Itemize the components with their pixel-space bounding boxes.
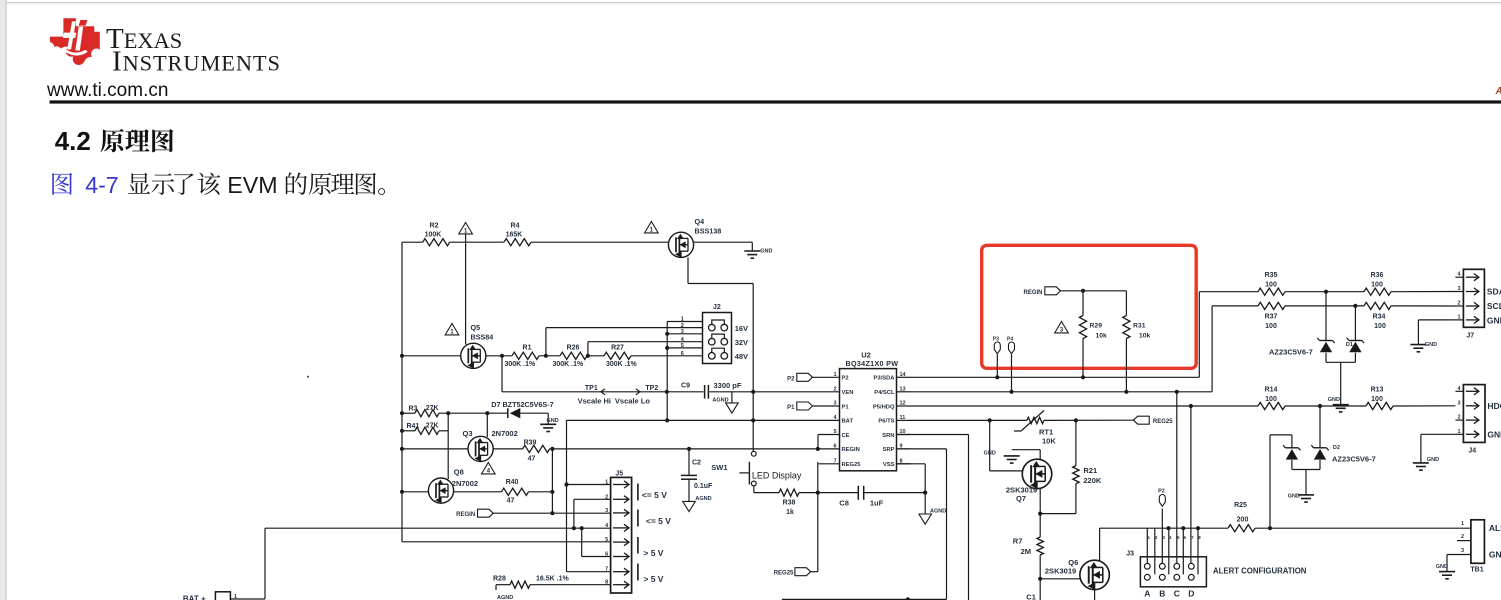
- svg-text:ALERT CONFIGURATION: ALERT CONFIGURATION: [1213, 567, 1307, 576]
- svg-text:C8: C8: [839, 499, 849, 508]
- svg-text:GND: GND: [1427, 457, 1439, 463]
- svg-text:D1: D1: [1346, 342, 1353, 348]
- svg-text:300K .1%: 300K .1%: [606, 361, 638, 368]
- svg-text:5: 5: [605, 537, 608, 543]
- svg-text:GND: GND: [1328, 397, 1340, 403]
- svg-text:P3/SDA: P3/SDA: [874, 376, 896, 382]
- svg-text:R7: R7: [1013, 536, 1023, 545]
- svg-text:100K: 100K: [425, 232, 442, 239]
- svg-text:D7 BZT52C5V6S-7: D7 BZT52C5V6S-7: [491, 400, 553, 409]
- svg-text:4-7: 4-7: [85, 172, 119, 198]
- svg-text:0.1uF: 0.1uF: [694, 483, 713, 490]
- svg-text:100: 100: [1265, 282, 1277, 289]
- svg-text:7: 7: [605, 567, 608, 573]
- svg-text:1: 1: [450, 329, 454, 336]
- svg-text:GND: GND: [1487, 429, 1501, 439]
- svg-text:GND: GND: [1288, 494, 1300, 500]
- svg-text:47: 47: [507, 498, 515, 505]
- svg-text:BSS84: BSS84: [471, 333, 494, 342]
- svg-text:R29: R29: [1090, 323, 1103, 330]
- svg-text:R39: R39: [524, 440, 537, 447]
- svg-text:GND: GND: [1436, 564, 1448, 570]
- svg-text:GND: GND: [1489, 550, 1501, 560]
- svg-text:100: 100: [1265, 323, 1277, 330]
- svg-text:R1: R1: [523, 345, 532, 352]
- svg-text:1: 1: [1461, 521, 1464, 527]
- svg-text:10k: 10k: [1139, 333, 1151, 340]
- svg-text:B: B: [1159, 589, 1165, 599]
- svg-text:J4: J4: [1468, 448, 1476, 455]
- svg-text:48V: 48V: [735, 352, 748, 361]
- svg-text:P4/SCL: P4/SCL: [874, 390, 895, 396]
- svg-text:R28: R28: [493, 576, 506, 583]
- svg-text:Vscale Lo: Vscale Lo: [615, 396, 650, 405]
- svg-text:SCL: SCL: [1487, 301, 1501, 311]
- svg-text:1: 1: [605, 480, 608, 486]
- svg-text:GND: GND: [547, 418, 559, 424]
- svg-text:Q4: Q4: [695, 217, 705, 226]
- svg-text:> 5 V: > 5 V: [643, 548, 663, 558]
- svg-text:R26: R26: [567, 345, 580, 352]
- svg-text:Q7: Q7: [1016, 494, 1026, 503]
- svg-text:10K: 10K: [1042, 436, 1056, 445]
- svg-text:C9: C9: [681, 383, 690, 390]
- svg-text:TP2: TP2: [645, 385, 658, 392]
- svg-text:J5: J5: [615, 471, 623, 478]
- svg-text:R31: R31: [1133, 323, 1146, 330]
- svg-text:BSS138: BSS138: [695, 227, 722, 236]
- svg-text:2N7002: 2N7002: [492, 429, 518, 438]
- svg-text:HDQ: HDQ: [1487, 401, 1501, 411]
- svg-text:J7: J7: [1466, 333, 1474, 340]
- svg-text:100: 100: [1371, 396, 1383, 403]
- svg-text:P3: P3: [993, 337, 999, 343]
- svg-text:47: 47: [528, 456, 536, 463]
- svg-text:100: 100: [1374, 323, 1386, 330]
- svg-text:P5/HDQ: P5/HDQ: [873, 404, 895, 410]
- svg-text:EVM: EVM: [227, 172, 277, 198]
- svg-text:C1: C1: [1026, 592, 1036, 600]
- svg-text:P1: P1: [842, 404, 850, 410]
- svg-text:REG25: REG25: [842, 462, 862, 468]
- svg-text:INSTRUMENTS: INSTRUMENTS: [112, 46, 281, 78]
- svg-text:10k: 10k: [1096, 333, 1108, 340]
- svg-text:2N7002: 2N7002: [452, 479, 478, 488]
- svg-text:3: 3: [1461, 548, 1464, 554]
- svg-text:C: C: [1174, 589, 1180, 599]
- svg-text:P4: P4: [1007, 337, 1013, 343]
- svg-text:GND: GND: [760, 249, 772, 255]
- svg-text:R40: R40: [506, 479, 519, 486]
- svg-text:1: 1: [464, 228, 468, 235]
- svg-text:6: 6: [681, 351, 684, 357]
- svg-text:REG25: REG25: [1153, 419, 1173, 425]
- svg-text:> 5 V: > 5 V: [643, 574, 663, 584]
- svg-text:REGIN: REGIN: [842, 447, 860, 453]
- svg-text:R38: R38: [783, 500, 796, 507]
- svg-text:Q8: Q8: [454, 468, 464, 477]
- svg-text:27K: 27K: [426, 405, 439, 412]
- svg-text:P6/TS: P6/TS: [878, 419, 894, 425]
- svg-text:R13: R13: [1371, 387, 1384, 394]
- svg-text:AGND: AGND: [497, 595, 513, 600]
- svg-text:2SK3019: 2SK3019: [1045, 566, 1076, 575]
- svg-text:D: D: [1188, 589, 1194, 599]
- svg-text:BAT +: BAT +: [183, 595, 206, 600]
- svg-text:16.5K .1%: 16.5K .1%: [536, 576, 569, 583]
- svg-text:A: A: [1495, 86, 1501, 97]
- svg-text:R4: R4: [511, 223, 520, 230]
- svg-text:SRP: SRP: [883, 447, 895, 453]
- svg-text:Q3: Q3: [463, 429, 473, 438]
- svg-text:R27: R27: [611, 345, 624, 352]
- svg-text:6: 6: [605, 552, 608, 558]
- svg-text:REGIN: REGIN: [456, 512, 475, 518]
- svg-text:4: 4: [487, 468, 491, 475]
- svg-text:R35: R35: [1265, 272, 1278, 279]
- svg-text:1uF: 1uF: [870, 499, 884, 508]
- svg-text:P2: P2: [1158, 488, 1165, 494]
- svg-text:4.2: 4.2: [55, 126, 91, 156]
- svg-text:1k: 1k: [786, 509, 794, 516]
- svg-text:D2: D2: [1333, 445, 1340, 451]
- svg-text:R37: R37: [1265, 314, 1278, 321]
- svg-text:2: 2: [1461, 534, 1464, 540]
- svg-text:R34: R34: [1373, 314, 1386, 321]
- svg-text:AGND: AGND: [695, 496, 711, 502]
- svg-text:1: 1: [650, 227, 654, 234]
- svg-text:R3: R3: [409, 406, 418, 413]
- svg-text:3300 pF: 3300 pF: [714, 381, 742, 390]
- svg-text:AGND: AGND: [930, 509, 946, 515]
- svg-text:2: 2: [833, 386, 836, 392]
- svg-text:300K .1%: 300K .1%: [553, 361, 585, 368]
- svg-text:LED Display: LED Display: [752, 470, 802, 480]
- svg-text:16V: 16V: [735, 324, 748, 333]
- svg-text:1: 1: [234, 594, 237, 600]
- svg-text:GND: GND: [1425, 342, 1437, 348]
- svg-text:P2: P2: [842, 376, 849, 382]
- svg-text:BAT: BAT: [842, 419, 854, 425]
- svg-text:P1: P1: [787, 405, 795, 411]
- svg-text:R2: R2: [430, 223, 439, 230]
- svg-text:J2: J2: [713, 304, 721, 311]
- svg-text:220K: 220K: [1083, 476, 1102, 485]
- svg-text:300K .1%: 300K .1%: [505, 361, 537, 368]
- svg-text:REG25: REG25: [774, 571, 794, 577]
- svg-text:BQ34Z1X0 PW: BQ34Z1X0 PW: [846, 359, 899, 368]
- svg-text:R36: R36: [1371, 272, 1384, 279]
- svg-text:R14: R14: [1265, 387, 1278, 394]
- svg-text:AZ23C5V6-7: AZ23C5V6-7: [1332, 455, 1376, 464]
- svg-text:www.ti.com.cn: www.ti.com.cn: [46, 80, 168, 101]
- svg-text:165K: 165K: [506, 232, 523, 239]
- svg-text:3: 3: [1457, 400, 1460, 406]
- svg-text:Vscale Hi: Vscale Hi: [578, 396, 611, 405]
- svg-text:CE: CE: [842, 433, 850, 439]
- svg-text:ALER: ALER: [1489, 523, 1501, 533]
- svg-text:AZ23C5V6-7: AZ23C5V6-7: [1269, 348, 1313, 357]
- svg-text:6: 6: [833, 443, 836, 449]
- svg-text:R41: R41: [407, 423, 420, 430]
- svg-text:<= 5 V: <= 5 V: [646, 516, 671, 526]
- svg-text:<= 5 V: <= 5 V: [642, 490, 667, 500]
- svg-text:A: A: [1144, 589, 1150, 599]
- svg-text:27K: 27K: [426, 423, 439, 430]
- svg-text:C2: C2: [692, 460, 701, 467]
- svg-text:J3: J3: [1126, 551, 1134, 558]
- svg-text:100: 100: [1371, 282, 1383, 289]
- svg-text:TB1: TB1: [1470, 567, 1483, 574]
- svg-text:200: 200: [1237, 517, 1249, 524]
- svg-text:3: 3: [1060, 327, 1064, 334]
- svg-text:Q5: Q5: [471, 323, 481, 332]
- svg-text:P2: P2: [787, 376, 795, 382]
- svg-text:VSS: VSS: [883, 462, 895, 468]
- svg-text:GND: GND: [1487, 315, 1501, 325]
- svg-text:R21: R21: [1083, 466, 1097, 475]
- svg-text:VEN: VEN: [842, 390, 854, 396]
- svg-text:32V: 32V: [735, 338, 748, 347]
- svg-text:3: 3: [605, 508, 608, 514]
- svg-text:2: 2: [605, 494, 608, 500]
- svg-text:100: 100: [1265, 396, 1277, 403]
- svg-text:RT1: RT1: [1039, 427, 1053, 436]
- svg-text:SRN: SRN: [882, 433, 894, 439]
- svg-text:8: 8: [605, 580, 608, 586]
- svg-text:REGIN: REGIN: [1023, 290, 1042, 296]
- svg-text:R25: R25: [1234, 502, 1247, 509]
- svg-text:2M: 2M: [1021, 547, 1031, 556]
- svg-text:TP1: TP1: [585, 385, 598, 392]
- svg-text:2: 2: [681, 323, 684, 329]
- svg-text:SDA: SDA: [1487, 287, 1501, 297]
- svg-text:SW1: SW1: [711, 463, 727, 472]
